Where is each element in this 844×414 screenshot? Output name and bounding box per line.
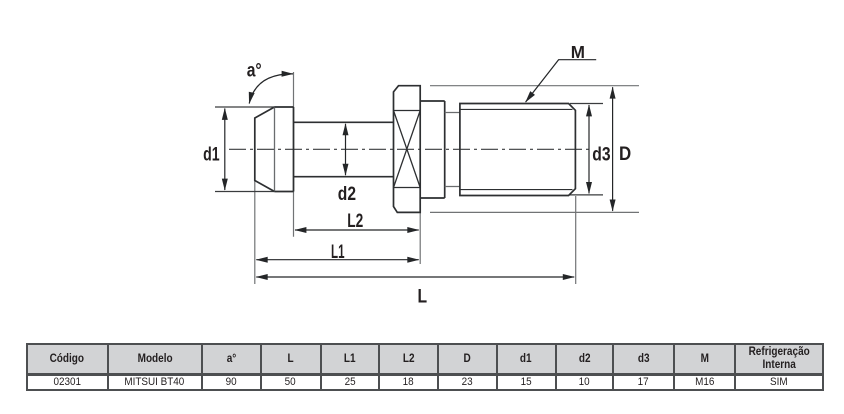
threaded end M16 outline bbox=[460, 104, 576, 196]
extension line: d1 bottom bbox=[215, 191, 275, 193]
svg-text:L2: L2 bbox=[347, 210, 363, 232]
flange groove X box bbox=[394, 111, 421, 188]
thread minor diameter lines bbox=[460, 109, 573, 189]
extension line: cone face / L1 / L datum bbox=[254, 181, 256, 284]
angle dimension a° arc bbox=[249, 74, 293, 104]
dimension d3 bbox=[588, 105, 590, 193]
svg-text:d1: d1 bbox=[203, 143, 220, 165]
collar cylinder bbox=[420, 101, 445, 198]
extension line: d1 top bbox=[215, 106, 275, 108]
extension line: D top bbox=[430, 85, 639, 87]
shaft d2 bbox=[294, 122, 394, 176]
svg-text:a°: a° bbox=[247, 59, 262, 81]
centerline bbox=[229, 148, 592, 150]
head cylinder bbox=[275, 107, 294, 192]
table value row bbox=[27, 374, 823, 390]
extension line: d3 top bbox=[570, 103, 603, 105]
dimension L bbox=[256, 276, 574, 278]
svg-text:L1: L1 bbox=[331, 241, 345, 263]
thread label M leader bbox=[526, 60, 597, 102]
svg-text:d2: d2 bbox=[338, 183, 356, 205]
svg-text:M: M bbox=[571, 42, 585, 62]
pull stud head cone bbox=[255, 107, 275, 192]
extension line: d3 bottom bbox=[570, 194, 603, 196]
extension line: thread right / L datum bbox=[575, 196, 577, 284]
dimension L2 bbox=[295, 229, 419, 231]
flange outline bbox=[394, 86, 421, 213]
specification table bbox=[26, 343, 824, 391]
extension line: D bottom bbox=[430, 211, 639, 213]
head cone tangent line bbox=[274, 107, 276, 192]
extension line: head right edge / a° / L2 datum bbox=[293, 72, 295, 237]
dimension d2 bbox=[345, 124, 347, 175]
dimension D bbox=[612, 87, 614, 211]
flange groove X diagonals bbox=[394, 111, 421, 188]
svg-text:D: D bbox=[619, 143, 631, 165]
neck bbox=[445, 113, 460, 187]
svg-text:d3: d3 bbox=[592, 144, 610, 166]
svg-text:L: L bbox=[418, 286, 428, 308]
dimension d1 bbox=[224, 109, 226, 191]
table header row bbox=[27, 344, 823, 390]
dimension L1 bbox=[256, 259, 418, 261]
extension line: flange right / L1 L2 datum bbox=[419, 213, 421, 264]
